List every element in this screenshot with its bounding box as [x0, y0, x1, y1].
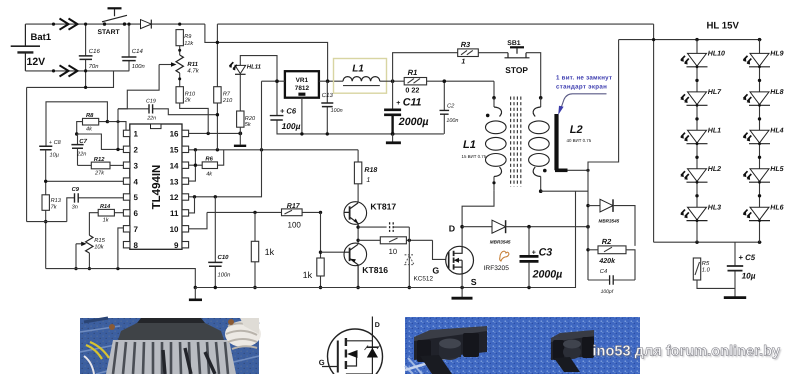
svg-text:210: 210: [222, 98, 233, 104]
wire R11 wiper staircase: [118, 65, 159, 109]
svg-text:S: S: [471, 277, 477, 287]
ground under mosfet: [461, 288, 463, 298]
svg-text:12: 12: [170, 193, 179, 202]
svg-text:R5: R5: [702, 261, 710, 267]
svg-text:G: G: [319, 358, 325, 367]
svg-text:14: 14: [170, 161, 179, 170]
svg-text:MBR3545: MBR3545: [599, 218, 620, 223]
wire drain node: [462, 190, 494, 226]
svg-text:10: 10: [170, 225, 179, 234]
connector top: [60, 19, 78, 30]
capacitor optional dashed: [358, 226, 409, 228]
wire pin4 line: [46, 180, 124, 182]
resistor 10 gate: [358, 237, 432, 256]
resistor R12: [78, 156, 124, 177]
wire KT816 base: [321, 251, 344, 253]
svg-text:C4: C4: [600, 268, 607, 275]
svg-text:100n: 100n: [218, 272, 231, 279]
svg-text:D: D: [375, 322, 380, 329]
wire R10 down jog: [180, 103, 209, 133]
svg-text:D: D: [449, 224, 455, 234]
wire pin12 line: [189, 81, 262, 197]
transformer L1 primary winding: [462, 96, 507, 190]
svg-text:C7: C7: [79, 138, 87, 145]
core 1: [414, 330, 487, 360]
wire top right corner: [653, 24, 655, 242]
svg-text:HL4: HL4: [770, 128, 783, 135]
svg-text:R1: R1: [408, 68, 418, 77]
svg-text:420k: 420k: [598, 257, 616, 265]
svg-text:15: 15: [170, 146, 179, 155]
LED column wires: [697, 40, 760, 243]
transformer L2 secondary winding: [529, 96, 592, 193]
svg-text:15 ВИТ 0.75: 15 ВИТ 0.75: [462, 154, 487, 159]
core 2: [551, 334, 594, 360]
inductor L1 filter: [334, 59, 405, 94]
LED HL3: [680, 204, 721, 220]
wire battery plus rail: [25, 23, 205, 25]
transformer core: [511, 97, 521, 187]
switch SB1 STOP: [505, 40, 541, 98]
capacitor C2: [440, 79, 459, 134]
svg-text:7812: 7812: [295, 85, 310, 92]
svg-text:16: 16: [170, 130, 179, 139]
capacitor C6: [270, 79, 444, 135]
svg-text:40 ВИТ 0.75: 40 ВИТ 0.75: [567, 138, 592, 143]
LED HL1: [680, 128, 721, 144]
svg-text:KT816: KT816: [362, 265, 388, 275]
resistor R7: [214, 87, 233, 150]
svg-text:C2: C2: [447, 103, 455, 110]
resistor R2: [588, 237, 635, 280]
svg-text:100pf: 100pf: [601, 289, 614, 295]
svg-text:100µ: 100µ: [282, 121, 301, 131]
svg-text:L2: L2: [570, 124, 583, 136]
svg-text:70n: 70n: [89, 63, 99, 70]
wire led return: [588, 40, 619, 280]
LED HL5: [743, 166, 784, 182]
resistor 1k first: [251, 212, 274, 289]
diode MBR3545 first: [462, 220, 588, 244]
svg-text:Bat1: Bat1: [31, 32, 52, 43]
svg-text:4.7k: 4.7k: [187, 68, 199, 75]
resistor R17: [282, 203, 303, 229]
capacitor C4: [588, 268, 635, 295]
battery Bat1: [11, 24, 52, 71]
capacitor C13: [321, 81, 342, 135]
svg-text:KT817: KT817: [370, 201, 396, 211]
svg-text:3: 3: [134, 161, 139, 170]
svg-text:HL9: HL9: [770, 51, 783, 58]
svg-text:10µ: 10µ: [50, 153, 59, 159]
svg-text:2: 2: [134, 146, 139, 155]
LED HL4: [743, 128, 784, 144]
resistor R20: [237, 111, 256, 145]
svg-text:ino53 для forum.onliner.by: ino53 для forum.onliner.by: [593, 344, 781, 360]
resistor R10: [176, 87, 196, 104]
wire left ground rail: [46, 269, 196, 288]
svg-text:TL494IN: TL494IN: [151, 165, 163, 210]
svg-text:11: 11: [170, 209, 179, 218]
ground under C5: [724, 296, 746, 299]
svg-text:12k: 12k: [184, 40, 194, 47]
svg-text:2000µ: 2000µ: [532, 268, 563, 280]
LED HL6: [743, 204, 784, 220]
LED HL8: [743, 89, 784, 105]
svg-text:R2: R2: [602, 237, 612, 246]
wire pin2 vertical: [117, 109, 119, 150]
wire rail A2: [217, 24, 653, 87]
svg-text:5: 5: [134, 193, 139, 202]
wire pin15 line: [189, 149, 359, 151]
svg-text:VR1: VR1: [296, 77, 309, 84]
capacitor C3: [520, 225, 563, 288]
svg-text:R8: R8: [86, 112, 94, 119]
svg-text:HL6: HL6: [770, 204, 783, 211]
transistor Q1 KT817: [344, 201, 397, 227]
svg-text:HL10: HL10: [708, 51, 725, 58]
resistor R14: [89, 204, 123, 235]
svg-text:HL5: HL5: [770, 166, 783, 173]
wire pin7 to ground rail: [118, 228, 124, 269]
mosfet pinout drawing: [319, 317, 383, 374]
svg-text:0 22: 0 22: [405, 86, 419, 95]
wire R17 line: [207, 211, 321, 213]
svg-text:C19: C19: [146, 99, 156, 105]
transistor Q2 KT816: [344, 243, 389, 289]
svg-text:C3: C3: [539, 246, 553, 258]
svg-text:HL 15V: HL 15V: [707, 20, 740, 31]
regulator VR1 7812: [262, 71, 344, 134]
annotation blue note: [556, 75, 612, 115]
svg-text:1: 1: [366, 177, 370, 184]
svg-text:10k: 10k: [94, 244, 104, 251]
wire C7 to pin2: [77, 134, 124, 149]
svg-text:1k: 1k: [303, 270, 313, 280]
svg-text:R20: R20: [245, 116, 256, 122]
svg-text:2k: 2k: [184, 97, 192, 104]
wire R8 to pin1: [107, 122, 126, 134]
svg-text:R15: R15: [94, 238, 105, 244]
wire minus loop: [27, 71, 114, 222]
svg-text:G: G: [432, 265, 439, 275]
svg-text:R14: R14: [100, 204, 111, 210]
op-amp U1 TL494IN: [123, 124, 188, 250]
svg-text:C14: C14: [132, 48, 144, 55]
svg-text:C13: C13: [322, 92, 334, 99]
svg-text:27k: 27k: [94, 170, 105, 177]
svg-text:KC512: KC512: [414, 276, 434, 283]
svg-text:9: 9: [174, 241, 179, 250]
wire led bottom rail: [654, 241, 762, 243]
svg-text:R6: R6: [205, 156, 213, 163]
resistor R9: [176, 23, 194, 56]
LED HL7: [680, 89, 722, 105]
wire pin10: [189, 212, 207, 228]
svg-text:100n: 100n: [446, 118, 458, 124]
svg-text:C16: C16: [89, 48, 101, 55]
svg-text:10µ: 10µ: [742, 271, 756, 280]
svg-text:+ C6: + C6: [280, 106, 297, 115]
svg-text:R12: R12: [94, 156, 105, 163]
svg-text:C9: C9: [72, 186, 80, 193]
wire pin11: [189, 197, 195, 213]
transistor M1 IRF3205 mosfet: [432, 224, 509, 288]
svg-text:12V: 12V: [27, 56, 46, 68]
svg-text:22n: 22n: [146, 116, 156, 122]
LED HL2: [680, 166, 721, 182]
svg-text:HL1: HL1: [708, 128, 721, 135]
svg-text:+: +: [532, 250, 536, 257]
resistor 1k second: [303, 212, 325, 289]
svg-text:стандарт экран: стандарт экран: [556, 84, 607, 91]
watermark: [593, 344, 783, 362]
resistor R1: [404, 68, 494, 94]
photo heatsink: [80, 318, 261, 374]
capacitor C9: [27, 186, 124, 222]
wire pin16 line: [189, 132, 240, 134]
capacitor C8: [39, 140, 61, 268]
svg-text:1.0: 1.0: [702, 267, 711, 274]
svg-text:100n: 100n: [331, 108, 343, 114]
svg-text:IRF3205: IRF3205: [484, 265, 510, 272]
svg-text:1k: 1k: [265, 247, 275, 257]
svg-text:13: 13: [170, 177, 179, 186]
LED HL9: [743, 51, 784, 67]
svg-text:3n: 3n: [72, 204, 78, 210]
wire pin14 pin13 tie: [189, 150, 224, 181]
LED HL10: [680, 51, 725, 67]
svg-text:HL8: HL8: [770, 89, 783, 96]
resistor R18: [354, 150, 377, 203]
screen winding bar: [555, 114, 590, 172]
LED HL11: [229, 56, 277, 111]
resistor R8: [75, 112, 109, 136]
svg-text:100: 100: [288, 220, 302, 229]
svg-text:2000µ: 2000µ: [398, 116, 429, 128]
wire R3 branch: [393, 53, 458, 81]
svg-text:+ C8: + C8: [49, 140, 62, 146]
svg-text:8: 8: [134, 241, 139, 250]
resistor R6: [202, 156, 217, 178]
svg-text:+ C5: + C5: [738, 253, 755, 262]
wire C8 top line: [46, 102, 107, 146]
wire led anode rail: [619, 39, 762, 41]
ground left: [189, 286, 202, 300]
bottom rail: [195, 191, 575, 287]
diode D1: [141, 20, 152, 29]
potentiometer R15: [74, 235, 105, 270]
connector bottom: [60, 65, 78, 76]
svg-text:HL11: HL11: [247, 64, 262, 71]
wire to winding top: [493, 81, 495, 98]
capacitor C16: [79, 23, 101, 88]
capacitor C10: [208, 197, 230, 288]
svg-text:1 вит. не замкнут: 1 вит. не замкнут: [556, 75, 612, 82]
diode KC512 dashed: [408, 227, 410, 287]
svg-text:R3: R3: [461, 40, 471, 49]
resistor R13: [42, 195, 62, 224]
svg-text:STOP: STOP: [505, 65, 528, 75]
svg-text:22n: 22n: [76, 152, 86, 158]
wire battery minus: [25, 70, 129, 72]
svg-text:1: 1: [134, 130, 139, 139]
svg-text:4: 4: [134, 177, 139, 186]
svg-text:C11: C11: [403, 97, 422, 109]
svg-text:R10: R10: [185, 91, 196, 97]
svg-text:R18: R18: [364, 167, 377, 174]
capacitor C14: [122, 23, 145, 71]
resistor R5: [693, 258, 735, 288]
svg-text:R11: R11: [187, 61, 198, 68]
wire KT817 emitter node: [357, 227, 359, 243]
svg-text:R9: R9: [184, 34, 191, 40]
svg-text:R13: R13: [51, 198, 62, 204]
svg-text:C10: C10: [218, 254, 230, 261]
switch START: [98, 8, 128, 36]
ground under R20: [234, 145, 246, 147]
svg-text:R17: R17: [287, 203, 301, 210]
svg-text:HL2: HL2: [708, 166, 721, 173]
svg-text:R7: R7: [223, 91, 231, 97]
svg-text:L1: L1: [463, 139, 476, 151]
capacitor C5: [727, 242, 756, 296]
svg-text:+: +: [396, 100, 400, 107]
photo ferrite cores: [405, 317, 640, 374]
diode MBR3545 second: [588, 199, 635, 246]
svg-text:L1: L1: [352, 63, 364, 74]
wire gate: [433, 240, 447, 259]
node battery top: [52, 23, 55, 26]
svg-text:10: 10: [389, 247, 397, 256]
svg-text:MBR3545: MBR3545: [490, 240, 511, 245]
capacitor C19: [118, 99, 217, 122]
ground under C11: [392, 134, 394, 142]
svg-text:100n: 100n: [132, 63, 145, 70]
capacitor C7: [71, 134, 87, 165]
wire rail jog: [205, 24, 328, 81]
svg-text:HL7: HL7: [708, 89, 722, 96]
svg-text:1: 1: [461, 59, 465, 66]
svg-text:6: 6: [134, 209, 139, 218]
svg-text:START: START: [98, 29, 121, 36]
svg-text:7: 7: [134, 225, 139, 234]
svg-text:HL3: HL3: [708, 204, 721, 211]
wire secondary bottom line: [541, 190, 588, 192]
svg-text:SB1: SB1: [507, 40, 520, 47]
potentiometer R11: [159, 55, 200, 87]
resistor R3: [458, 40, 508, 66]
capacitor C11: [384, 81, 428, 136]
